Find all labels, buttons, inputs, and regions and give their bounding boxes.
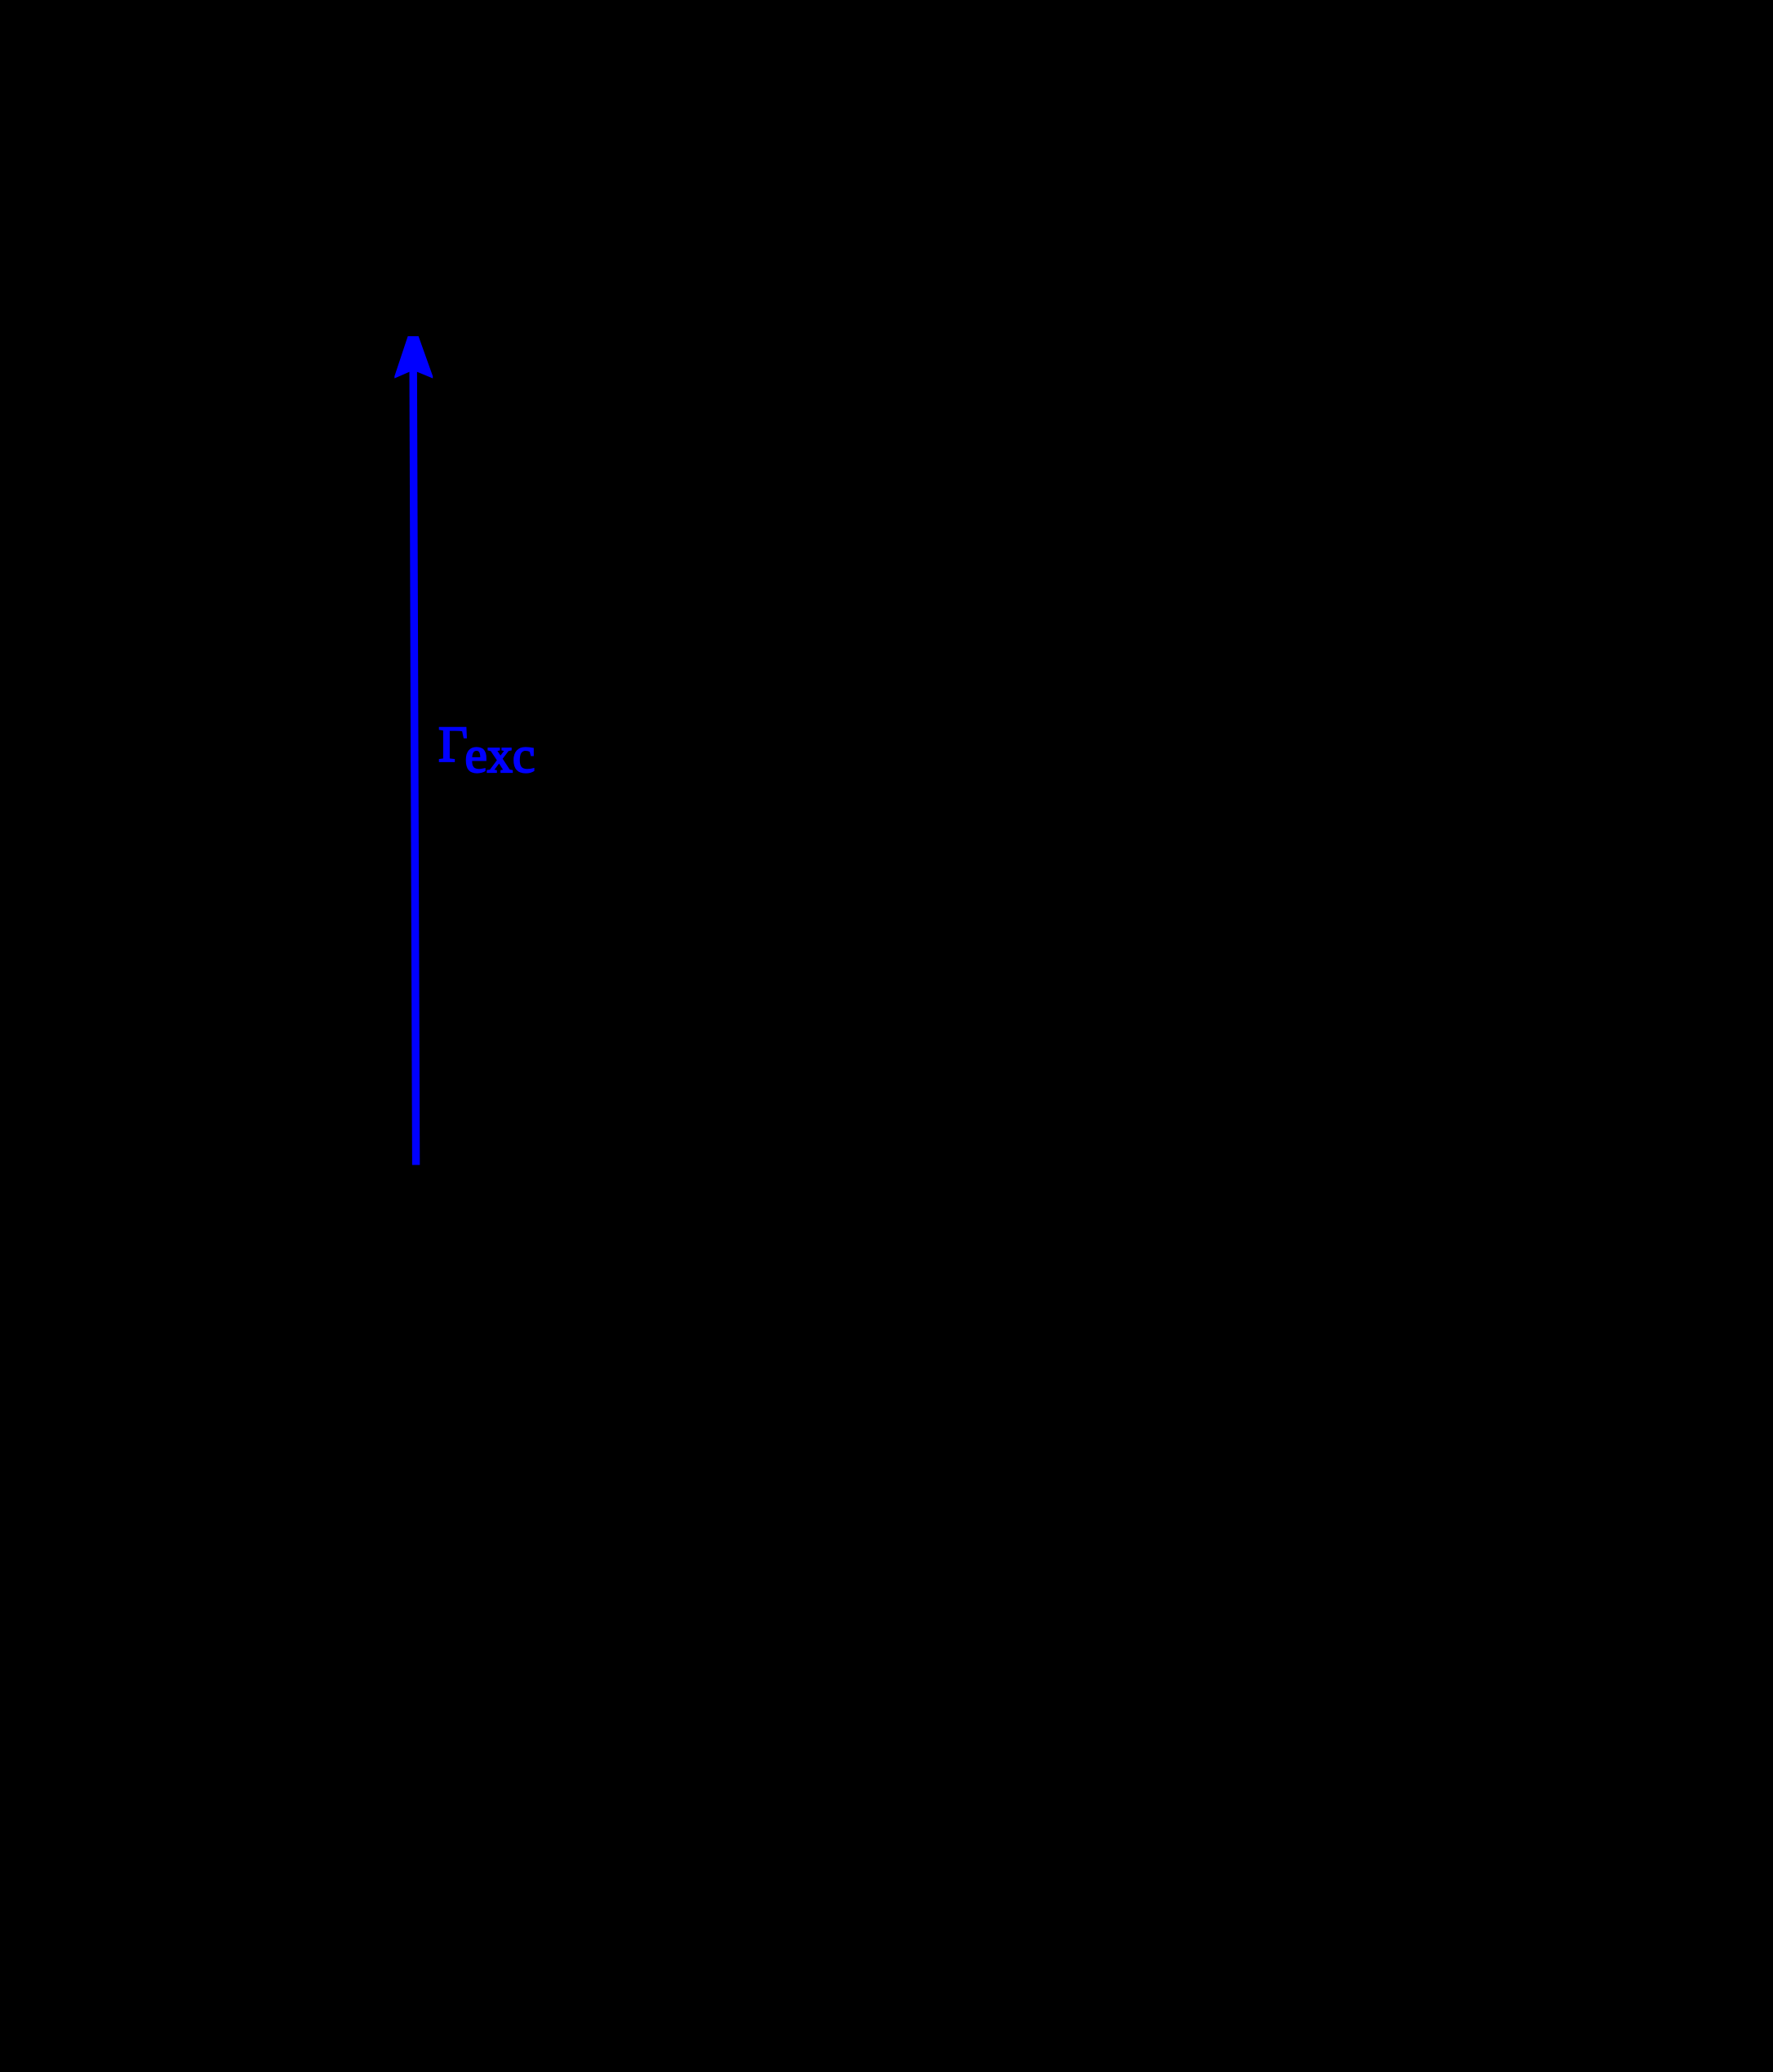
svg-text:Γ: Γ bbox=[438, 717, 468, 773]
svg-text:exc: exc bbox=[464, 728, 535, 783]
arrowhead of excitation arrow bbox=[394, 336, 433, 379]
wire: excitation arrow shaft bbox=[413, 371, 415, 1165]
